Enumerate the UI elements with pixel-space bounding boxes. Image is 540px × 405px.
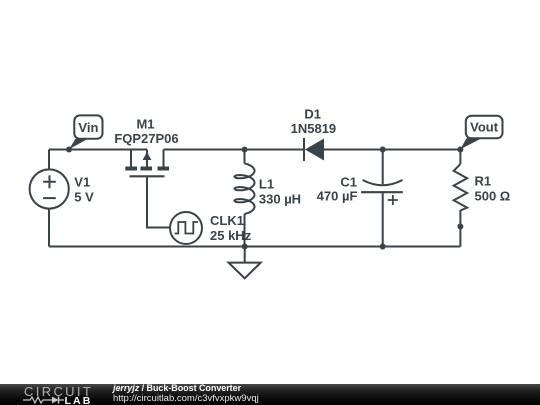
wire C1 top lead [382,150,384,185]
M1 body arrow line [146,150,148,167]
svg-text:LAB: LAB [65,395,93,405]
D1 triangle [305,139,324,161]
footer bar [0,384,540,405]
svg-text:CLK1: CLK1 [210,213,244,228]
node Vout dot [457,147,463,153]
footer credit text [113,384,259,404]
wire L1 top lead [244,150,246,164]
svg-text:330 µH: 330 µH [259,192,301,207]
svg-text:470 µF: 470 µF [317,189,358,204]
resistor R1 [454,164,467,211]
svg-text:V1: V1 [74,175,90,190]
svg-text:C1: C1 [340,175,357,190]
M1 body arrow head [143,152,152,160]
node L1 top [242,147,248,153]
mosfet M1 [125,150,169,177]
svg-text:FQP27P06: FQP27P06 [114,131,178,146]
flag Vout [460,116,502,149]
svg-text:D1: D1 [304,106,321,121]
node R1 bottom [457,224,463,230]
svg-text:Vout: Vout [470,120,499,135]
CircuitLab logo [23,384,98,405]
wire M1 gate to CLK1 [147,177,171,227]
M1 gate plate [130,175,165,177]
M1 source lead [130,150,132,167]
svg-text:25 kHz: 25 kHz [210,228,252,243]
node C1 bottom [380,244,386,250]
wire C1 bottom lead [382,192,384,246]
flag Vin [69,115,103,149]
wire L1 bottom lead [244,214,246,247]
D1 cathode bar [303,138,305,161]
node Vin dot [66,147,72,153]
ground [229,247,261,279]
svg-text:1N5819: 1N5819 [291,121,337,136]
wire M1 drain to L1 node [164,149,305,151]
svg-text:M1: M1 [136,117,154,132]
svg-text:R1: R1 [475,174,492,189]
wire top left from V1 to M1 source/body [49,149,147,151]
wire diode to C1 and Vout node [324,149,460,151]
clock source CLK1 [170,212,202,244]
capacitor C1 [361,180,403,205]
wire bottom rail [49,246,460,248]
voltage source V1 [30,169,69,208]
wire V1 top lead [48,150,50,170]
svg-text:5 V: 5 V [74,190,94,205]
svg-text:L1: L1 [259,177,274,192]
svg-text:500 Ω: 500 Ω [475,189,511,204]
diode D1 [304,138,324,161]
C1 curved plate [363,180,403,185]
svg-text:Vin: Vin [78,120,98,135]
wire R1 top lead [459,150,461,165]
M1 drain lead [163,150,165,167]
wire V1 bottom lead [48,209,50,247]
wire R1 bottom lead [459,210,461,247]
node C1 top [380,147,386,153]
M1 channel bars [125,167,169,171]
C1 straight plate [361,191,403,193]
inductor L1 [235,164,255,214]
node ground junction [242,244,248,250]
C1 plus sign [388,195,398,205]
